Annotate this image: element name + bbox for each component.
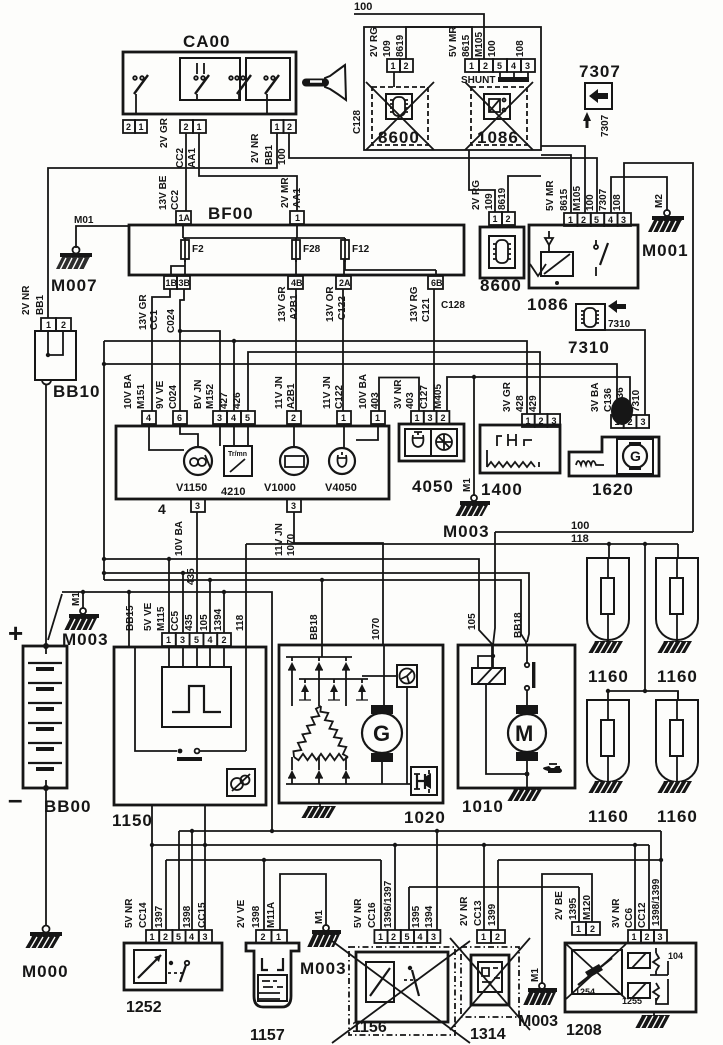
diode bridge top row [286,657,352,706]
svg-text:1070: 1070 [371,617,382,640]
svg-text:M11A: M11A [266,902,277,928]
wire 427-428 bus [104,341,527,414]
wires from buses into 1150 connector [129,557,224,647]
svg-text:BB10: BB10 [53,382,100,401]
switch contact S2 in CA00 [194,63,209,100]
svg-text:1255: 1255 [622,996,642,1006]
svg-text:3V NR: 3V NR [393,379,404,409]
location frame around 8600/1086 [364,27,541,150]
svg-text:V1150: V1150 [176,482,207,494]
svg-text:2V GR: 2V GR [159,117,170,148]
warning lamp 1160 top-left [587,544,629,686]
svg-text:M152: M152 [205,384,216,409]
svg-text:2: 2 [261,932,266,942]
svg-text:BB18: BB18 [513,612,524,638]
switch contact S1 in CA00 [133,75,148,114]
svg-text:8600: 8600 [480,276,522,295]
svg-text:2: 2 [61,320,66,330]
wire CC2 : CA00 to BF00 pin 1A [185,133,187,211]
connector 1:2 below CA00 right (BB1/100) [250,120,296,165]
svg-text:2: 2 [287,122,292,132]
ground below 1010 [506,789,542,802]
connector 1:2 (109/8619) top [369,27,413,72]
svg-text:428: 428 [515,395,526,412]
svg-text:7310: 7310 [608,319,631,330]
svg-text:C128: C128 [352,110,363,134]
svg-text:C128: C128 [441,300,465,311]
svg-text:2V NR: 2V NR [250,133,261,163]
svg-text:C127: C127 [419,385,430,409]
svg-text:1B: 1B [166,278,178,288]
ground M003 at 1157 [300,910,347,978]
svg-text:1399: 1399 [487,903,498,926]
svg-text:108: 108 [515,40,526,57]
svg-text:2: 2 [404,61,409,71]
svg-text:BB1: BB1 [35,295,46,315]
wire 426-429 bus [248,352,540,414]
pin 1 on cluster (C122) [322,376,351,424]
bus 118 (y544) to lamps [246,533,678,546]
svg-text:A2B1: A2B1 [289,294,300,320]
horn icon right of CA00 [306,65,346,100]
svg-text:4050: 4050 [412,477,454,496]
svg-text:1010: 1010 [462,797,504,816]
svg-text:3V GR: 3V GR [502,381,513,412]
crossed-out unit 8600 (not fitted) [366,72,434,150]
pin 6 on cluster [155,380,187,424]
internal switch in 1150 [135,647,246,761]
svg-text:2: 2 [495,932,500,942]
svg-text:M: M [515,721,533,746]
svg-text:M003: M003 [62,630,109,649]
wire 118 into 1150 [245,544,247,647]
ground M003 at 1208 [518,968,558,1030]
connector 1:3:2 above 4050 [411,384,449,424]
svg-text:4: 4 [158,501,166,517]
wires from 1150 down to 1252 [152,805,205,930]
svg-text:8615: 8615 [461,34,472,57]
wire AA1 : CA00 to BF00 [199,133,297,211]
connector 1:2 (1395/M120) [554,891,600,935]
svg-text:2V RG: 2V RG [369,27,380,57]
wire to 1252 pin5 [178,831,180,930]
svg-text:M2: M2 [654,194,665,208]
svg-text:1: 1 [276,932,281,942]
svg-text:100: 100 [354,1,372,13]
switch contact S3 in CA00 [229,75,251,100]
svg-text:1252: 1252 [126,999,162,1016]
svg-text:1: 1 [378,932,383,942]
svg-text:2: 2 [391,932,396,942]
wire M11A 1157 pin1 to ground [280,874,326,930]
direction symbol 7307 [579,62,621,137]
svg-text:1: 1 [493,214,498,224]
svg-text:7307: 7307 [579,62,621,81]
switch contact S4 in CA00 [264,75,279,114]
svg-text:8619: 8619 [497,187,508,210]
svg-text:7307: 7307 [600,114,611,137]
ground below 1208 [634,1012,670,1029]
svg-text:1398: 1398 [182,905,193,928]
svg-text:1020: 1020 [404,808,446,827]
wire M105 from shunt pin3 [541,146,585,213]
diode bridge bottom row [286,757,411,784]
svg-text:5V NR: 5V NR [353,898,364,928]
svg-text:M1: M1 [530,968,541,982]
svg-text:2V NR: 2V NR [459,896,470,926]
svg-text:M000: M000 [22,962,69,981]
unit 8600 [480,227,524,295]
wire battery negative to M000 [45,788,47,926]
unit 4050 [399,424,464,496]
svg-text:2: 2 [506,214,511,224]
svg-text:118: 118 [235,614,246,631]
svg-text:11V JN: 11V JN [274,523,285,556]
svg-text:2: 2 [163,932,168,942]
pin (AA1) on BF00 [280,177,304,224]
control unit 1150 [112,647,266,830]
svg-text:M120: M120 [582,895,593,920]
svg-text:10V BA: 10V BA [174,521,185,556]
svg-text:7307: 7307 [598,188,609,211]
svg-text:BB15: BB15 [125,605,136,631]
ground below 1020 [300,803,336,819]
svg-text:1160: 1160 [588,807,629,826]
svg-text:BB00: BB00 [44,797,91,816]
svg-text:1: 1 [150,932,155,942]
crossed-out unit 1156 [332,941,470,1043]
svg-text:1086: 1086 [477,128,519,147]
svg-text:4: 4 [608,215,613,225]
svg-text:9V VE: 9V VE [155,380,166,409]
svg-text:1: 1 [341,413,346,423]
svg-text:13V GR: 13V GR [277,286,288,322]
svg-text:CC16: CC16 [367,902,378,928]
svg-text:–: – [8,784,22,814]
svg-text:BB18: BB18 [309,614,320,640]
solenoid relay in 1010 [472,645,525,774]
svg-text:3: 3 [195,501,200,511]
svg-text:1395: 1395 [568,897,579,920]
svg-text:1: 1 [197,122,202,132]
svg-text:1620: 1620 [592,480,634,499]
svg-text:10V BA: 10V BA [123,374,134,409]
svg-text:M003: M003 [300,959,347,978]
svg-text:100: 100 [571,520,589,532]
wire 403 : cluster to 4050 pin1 [379,378,419,412]
svg-text:1157: 1157 [250,1027,285,1044]
svg-text:104: 104 [668,951,683,961]
svg-text:1160: 1160 [657,807,698,826]
svg-text:M105: M105 [474,32,485,57]
svg-text:2V NR: 2V NR [21,285,32,315]
battery BB00 [8,618,91,816]
svg-text:2V VE: 2V VE [236,899,247,928]
svg-text:2: 2 [126,122,131,132]
pin 2 on cluster [274,376,301,424]
svg-text:M115: M115 [156,606,167,631]
bottom bus C5 (1395) [409,886,579,888]
svg-text:1150: 1150 [112,811,153,830]
svg-text:M1: M1 [462,478,473,492]
svg-text:100: 100 [487,40,498,57]
wire CC13 to 1314 pin1 [483,845,485,930]
svg-text:C122: C122 [334,385,345,409]
bus B5 battery positive branch [62,590,272,831]
bottom bus C4 (1399) [498,858,663,862]
svg-text:C122: C122 [337,296,348,320]
svg-text:4: 4 [231,413,236,423]
svg-text:F12: F12 [352,244,370,255]
svg-text:M151: M151 [136,384,147,409]
svg-text:BF00: BF00 [208,204,254,223]
svg-text:2: 2 [291,413,296,423]
connector 1:3:5:4:2 above 1150 [125,602,246,646]
svg-text:1397: 1397 [154,905,165,928]
svg-text:1394: 1394 [213,608,224,631]
svg-text:2: 2 [645,932,650,942]
svg-text:1: 1 [391,61,396,71]
fuse F2 [181,238,204,262]
fuse F28 [292,238,321,262]
SHUNT label and shunt bar [461,72,529,86]
svg-text:13V OR: 13V OR [325,286,336,322]
solenoid contact in 1010 [525,645,536,705]
svg-text:1: 1 [568,215,573,225]
generator G in 1020 [362,645,402,784]
wire C136 bus to 1620 pin1 [102,362,617,415]
svg-text:V4050: V4050 [325,482,357,494]
svg-text:109: 109 [484,193,495,210]
wire BB10 to battery positive [45,384,47,646]
svg-text:M007: M007 [51,276,98,295]
svg-text:CC1: CC1 [149,310,160,330]
svg-text:CC5: CC5 [170,611,181,631]
svg-text:435: 435 [186,568,197,585]
component 7310 with arrow [568,300,631,357]
svg-text:5V MR: 5V MR [545,180,556,211]
svg-text:C121: C121 [421,298,432,322]
wire CC1 : BF00 1B to gauge unit pin 4 [138,289,170,411]
wire C122 : BF00 2A to gauge unit pin 1 [325,286,348,411]
coil icon in 1150 [227,769,255,796]
svg-text:4: 4 [146,413,151,423]
svg-text:1394: 1394 [424,905,435,928]
svg-text:1156: 1156 [352,1019,387,1036]
svg-text:1: 1 [632,932,637,942]
svg-text:100: 100 [277,148,288,165]
svg-text:1: 1 [415,413,420,423]
svg-text:105: 105 [199,614,210,631]
svg-text:5: 5 [405,932,410,942]
svg-text:Tr/mn: Tr/mn [228,451,247,458]
connector 1:2:3 above 1620 with ink blob [590,383,649,428]
starter unit 1010 [458,645,575,816]
pin 1 on cluster (403) [358,374,385,424]
wire M152 branch to pin 3 [178,329,220,411]
fan unit 1620 [569,437,659,499]
svg-text:7310: 7310 [568,338,610,357]
wire 105 feed down to 1010 [493,532,495,645]
svg-text:1: 1 [46,320,51,330]
svg-text:A2B1: A2B1 [286,383,297,409]
svg-text:11V JN: 11V JN [274,376,285,409]
wire to 1252 pin4 [191,831,193,930]
svg-text:1208: 1208 [566,1022,602,1039]
svg-text:108: 108 [612,194,623,211]
svg-text:6: 6 [177,413,182,423]
wire label 100 top with feed line [354,1,484,59]
svg-text:1396/1397: 1396/1397 [383,880,394,928]
warning lamp 1160 bottom-right [656,691,698,826]
svg-text:2A: 2A [339,278,351,288]
connector 1:2:5:4:3 above 1156 [353,880,440,943]
svg-text:2: 2 [539,416,544,426]
svg-text:1: 1 [526,416,531,426]
svg-text:3: 3 [552,416,557,426]
svg-text:CC6: CC6 [624,908,635,928]
svg-text:5: 5 [176,932,181,942]
relay unit 1208 [565,943,696,1039]
svg-text:2V MR: 2V MR [280,177,291,208]
svg-text:V1000: V1000 [264,482,296,494]
svg-text:2: 2 [222,635,227,645]
svg-text:1395: 1395 [411,905,422,928]
svg-text:C024: C024 [166,309,177,333]
svg-text:1086: 1086 [527,295,569,314]
svg-text:CC12: CC12 [637,902,648,928]
gauge V4050 [325,424,378,494]
junction unit BB10 [21,285,100,401]
svg-text:100: 100 [585,194,596,211]
svg-text:13V BE: 13V BE [158,175,169,210]
left trunk wire V1 [102,341,106,580]
ground M007 with wire M01 to BF00 [51,215,129,295]
svg-text:2: 2 [483,61,488,71]
svg-text:5: 5 [194,635,199,645]
fuse box BF00 [129,204,464,275]
wire 7310 to 1620 pin 3 [605,330,645,415]
svg-text:3V BA: 3V BA [590,383,601,412]
svg-text:2: 2 [590,924,595,934]
pump icon in 1020 [411,767,437,795]
wire 1395 to connector [578,887,580,922]
heater unit 1400 [480,425,560,499]
pin 3 below cluster (435) [158,499,205,585]
svg-text:AA1: AA1 [187,148,198,168]
svg-text:4: 4 [418,932,423,942]
oscillator module inside 1150 [162,646,231,727]
svg-text:2: 2 [441,413,446,423]
svg-text:3: 3 [525,61,530,71]
svg-text:M405: M405 [433,384,444,409]
fan icon in 1020 [362,665,417,784]
svg-text:1: 1 [166,635,171,645]
svg-text:1398: 1398 [251,905,262,928]
svg-text:4: 4 [511,61,516,71]
wire A2B1 : BF00 4B to gauge unit pin 2 [277,286,300,411]
wires into 1156 pins [381,831,437,930]
connector 1:2:3 above 1208 [611,878,667,943]
wire M120 loop to ground [542,874,592,984]
ground M000 [22,926,69,982]
svg-text:3: 3 [428,413,433,423]
svg-text:1: 1 [576,924,581,934]
gauge cluster box (V1150/4210/V1000/V4050) [116,426,389,499]
svg-text:11V JN: 11V JN [322,376,333,409]
bottom bus C1 (1398) [179,829,661,833]
svg-text:3: 3 [658,932,663,942]
svg-text:5: 5 [594,215,599,225]
gauge V1000 [264,424,308,494]
svg-text:427: 427 [219,392,230,409]
bus B2 (y573) to 1010 BB18 [104,573,529,642]
svg-text:4210: 4210 [221,486,245,498]
svg-text:3: 3 [180,635,185,645]
svg-text:3: 3 [431,932,436,942]
bus 100 (y532) [495,520,693,532]
svg-text:CC13: CC13 [473,900,484,926]
svg-text:2: 2 [581,215,586,225]
wire 1070 cluster to 1020 [294,512,383,645]
connector 2:1 below CA00 left [123,120,147,133]
svg-text:13V RG: 13V RG [409,286,420,322]
svg-text:AA1: AA1 [292,188,303,208]
connector 2:1 below CA00 mid (CC2/AA1) [159,117,206,168]
wire M2 and ground M001 [611,177,689,260]
starter motor M [508,705,546,788]
svg-text:3V NR: 3V NR [611,898,622,928]
svg-text:5V NR: 5V NR [124,898,135,928]
pins 1B 3B on BF00 bottom [164,259,191,289]
crossed-out unit 1086 (not fitted) [465,82,533,150]
svg-text:4: 4 [189,932,194,942]
warning lamp 1160 top-right [656,544,698,686]
stator delta winding [293,706,348,760]
svg-text:4: 4 [208,635,213,645]
svg-text:C024: C024 [168,385,179,409]
pin 2A on BF00 bottom [336,259,351,289]
svg-text:1400: 1400 [481,480,523,499]
crossed-out unit 1314 [450,938,530,1043]
svg-text:CC2: CC2 [175,148,186,168]
svg-text:1: 1 [139,122,144,132]
svg-text:BB1: BB1 [264,145,275,165]
wire 435 cluster to 1150 pin5 [196,512,198,633]
svg-text:1314: 1314 [470,1026,506,1043]
svg-text:5V VE: 5V VE [143,602,154,631]
svg-text:8600: 8600 [378,128,420,147]
connector 1:2:5:4:3 above 1252 [124,898,212,943]
svg-text:109: 109 [382,40,393,57]
svg-text:1254: 1254 [575,987,595,997]
wire BB18 to 1020 [309,580,322,657]
svg-text:435: 435 [184,614,195,631]
svg-text:2: 2 [184,122,189,132]
svg-text:M1: M1 [71,592,82,606]
wire 8619 down from frame above [469,150,541,212]
svg-text:105: 105 [467,613,478,630]
svg-text:3: 3 [641,417,646,427]
fuel gauge sender 1157 [236,899,299,1044]
bus B1 (y559) to 1010 relay [104,559,492,668]
pins 3 4 5 on cluster [193,380,255,424]
svg-text:M01: M01 [74,215,94,226]
bottom bus C3 [166,858,381,862]
wires into 1208 pins [635,831,661,930]
svg-text:G: G [373,721,390,746]
ground M003 near 4050 [443,377,490,541]
